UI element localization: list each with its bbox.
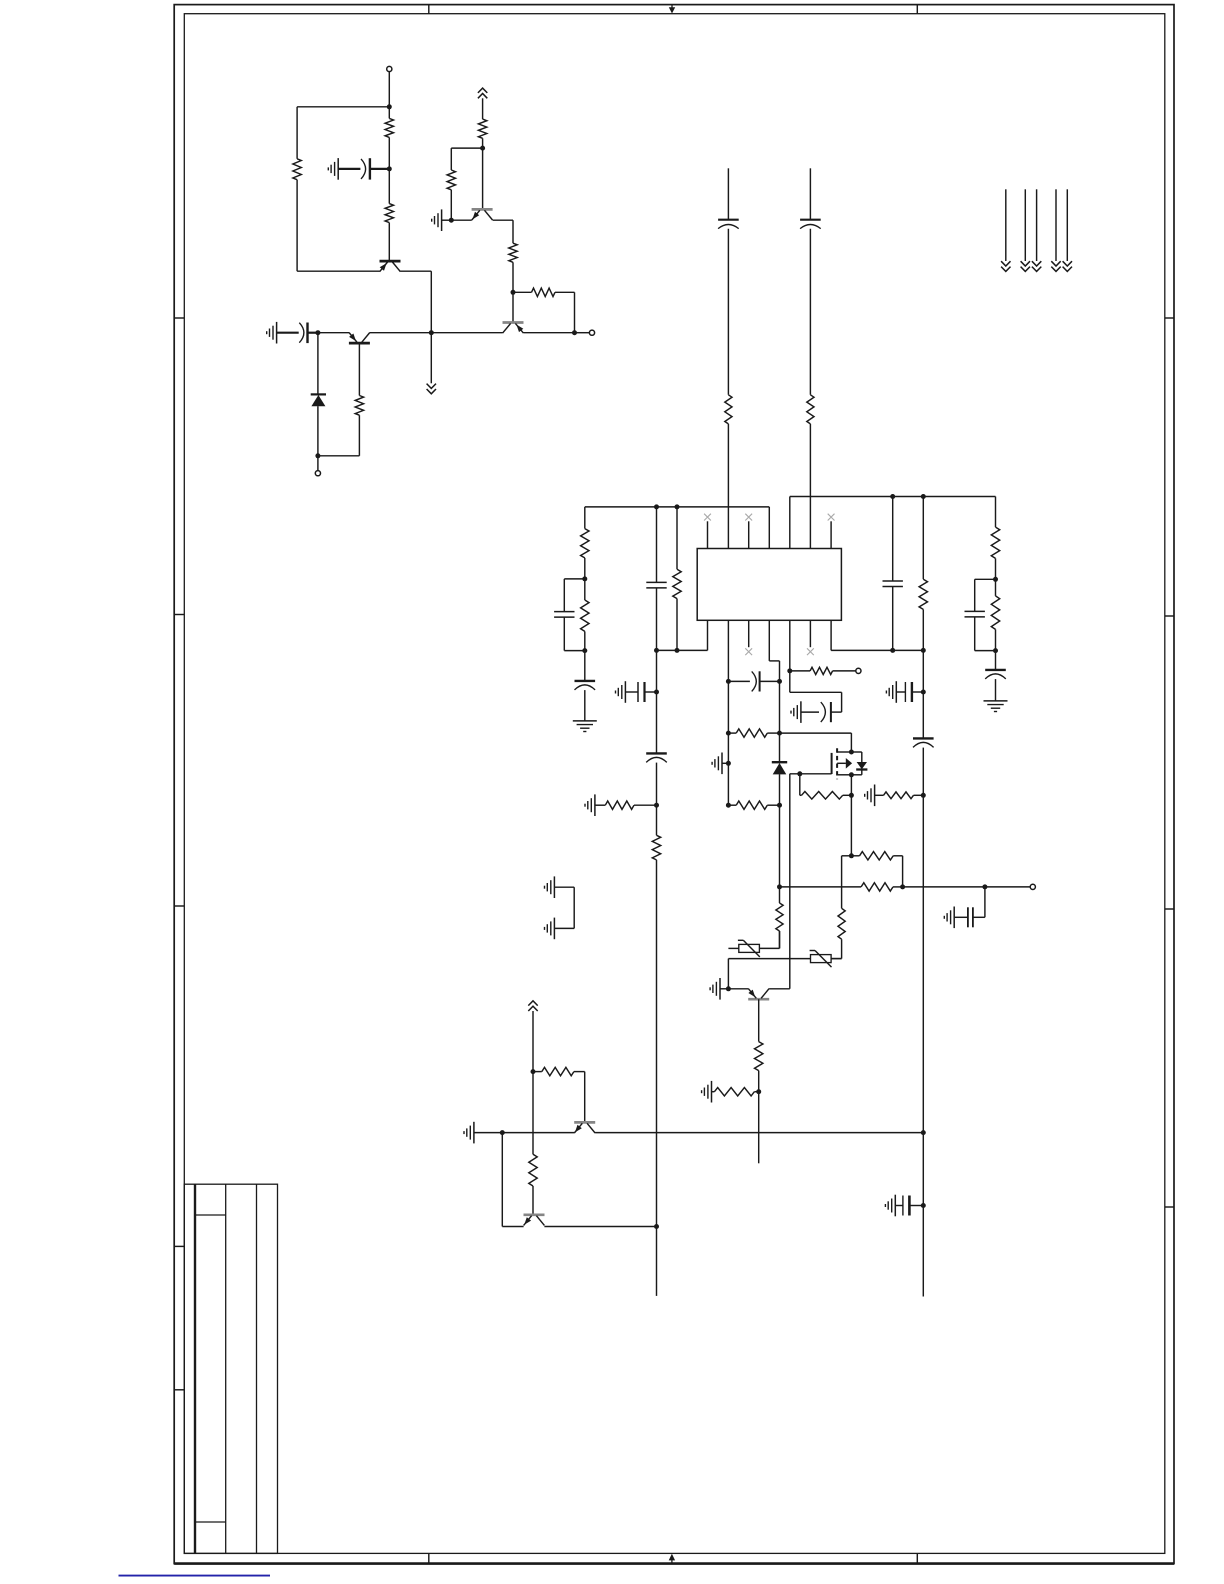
wire [532,1072,534,1155]
node [315,453,320,458]
capacitor C2 [299,323,307,344]
capacitor C4 [800,220,821,229]
power arrow down [427,384,436,394]
node [849,750,854,755]
power arrow down 1 [1001,261,1010,271]
wire [780,732,852,734]
wire [474,1132,502,1134]
resistor R18 [991,596,999,630]
node [849,772,854,777]
wire [801,711,819,713]
wire [451,147,482,149]
wire [758,999,760,1041]
node [582,576,587,581]
capacitor C5 [554,612,574,618]
ground [328,158,338,180]
power arrow up 2 [528,1001,537,1011]
wire [564,650,585,652]
wire [758,1092,760,1164]
no-connect mark [745,514,752,521]
wire [656,650,658,692]
wire [277,332,299,334]
resistor R30 [542,1067,574,1075]
wire [532,1011,534,1072]
transistor M1 [832,748,853,779]
wire [502,1226,523,1228]
capacitor C8 [965,611,985,617]
frame tick left 3 [174,905,184,907]
resistor R3 [385,204,393,223]
ground [585,794,595,816]
node [982,884,987,889]
node [921,690,926,695]
transistor Q5 [748,989,769,1000]
wire [317,406,319,456]
wire [843,794,852,796]
wire [317,333,319,394]
node [797,771,802,776]
node [726,803,731,808]
blue underline mark [119,1575,271,1577]
node [756,1089,761,1094]
wire [645,691,657,693]
wire [512,220,514,243]
wire [754,1091,758,1093]
wire [800,794,802,796]
no-connect mark [745,648,752,655]
terminal J4 [856,668,861,673]
resistor R8 [532,288,556,296]
wire [595,804,605,806]
wire [727,424,729,549]
frame tick left 4 [174,1245,184,1247]
wire [779,681,781,733]
body diode D2 [851,752,867,775]
wire [625,691,638,693]
title block outline [184,1184,277,1553]
wire [430,271,432,333]
wire [513,291,532,293]
node [500,1130,505,1135]
wire [833,670,856,672]
resistor R17 [991,527,999,558]
wire [656,507,658,583]
node [849,793,854,798]
ground [702,1081,712,1103]
wire [995,679,997,701]
wire [512,262,514,292]
resistor R4 [355,396,363,416]
ground [886,681,896,703]
wire [388,169,390,204]
frame tick right 2 [1165,615,1174,617]
capacitor C3 [718,220,739,229]
resistor R7 [509,243,517,262]
wire [388,223,390,261]
ground [545,918,555,940]
ground [545,876,555,898]
wire [914,794,924,796]
wire [563,617,565,651]
wire [634,804,657,806]
terminal J3 [589,330,594,335]
wire [841,856,843,909]
node [582,648,587,653]
wire [831,649,923,651]
wire [676,507,678,569]
wire [388,72,390,107]
wire [728,988,748,990]
wire [799,774,801,796]
wire gate [790,773,832,775]
wire [779,805,781,903]
wire [296,107,298,159]
wire [450,190,452,220]
node [654,1224,659,1229]
wire [831,958,842,960]
title block divider v1 [194,1184,196,1553]
wire [727,681,729,733]
node [921,648,926,653]
wire [903,886,985,888]
transistor Q2 [349,333,370,344]
wire [563,579,565,612]
wire [727,947,729,949]
node [511,290,516,295]
no-connect mark [828,514,835,521]
terminal J1 [387,66,392,71]
wire [850,733,852,752]
wire [727,168,729,219]
wire [656,860,658,1227]
ground [710,978,720,1000]
wire [482,138,484,148]
wire [728,947,738,949]
capacitor C14 [905,682,912,702]
capacitor C17 [903,1196,910,1216]
wire [574,292,576,332]
node [777,884,782,889]
node [654,648,659,653]
wire [841,692,843,712]
frame tick top 2 [916,5,918,14]
power arrow down 4 [1051,261,1060,271]
wire [995,497,997,528]
node [387,166,392,171]
wire [789,671,791,692]
resistor R22 [810,667,833,674]
resistor R14 [652,835,660,860]
node [921,1130,926,1135]
wire [712,1091,715,1093]
node [890,494,895,499]
IC pin 4 [768,507,770,549]
wire [769,988,790,990]
wire [431,332,502,334]
drawing frame inner border [184,14,1165,1554]
wire [974,579,976,611]
wire [912,691,923,693]
wire [656,763,658,806]
node [993,577,998,582]
IC pin 10 [789,620,791,671]
wire [759,947,779,949]
wire [851,855,859,857]
capacitor C15 [752,671,760,691]
resistor R29 [714,1088,754,1096]
node [726,986,731,991]
wire [720,988,728,990]
wire [502,1132,574,1134]
frame tick left 5 [174,1389,184,1391]
node [993,648,998,653]
wire [1036,189,1038,261]
wire [995,579,997,596]
wire [532,1186,534,1215]
resistor R6 [447,170,455,190]
wire [922,1133,924,1206]
node [726,761,731,766]
resistor R19 [776,903,783,931]
wire [482,98,484,119]
wire [895,1205,903,1207]
wire [554,927,574,929]
node [531,1069,536,1074]
wire [975,578,996,580]
ground [616,681,626,703]
wire [564,578,585,580]
IC pin 1 [707,521,709,548]
wire [1066,189,1068,261]
power arrow up [478,88,487,98]
wire [896,691,905,693]
node [726,679,731,684]
wire [317,456,319,471]
capacitor C7 [883,581,903,587]
diode D1 [311,394,326,406]
node [921,494,926,499]
resistor R10 [807,395,814,424]
wire [893,855,902,857]
no-connect mark [704,514,711,521]
wire [985,886,1030,888]
wire [584,1072,586,1123]
wire [451,219,472,221]
frame tick right 1 [1165,317,1174,319]
ground [885,1195,895,1217]
node [449,218,454,223]
resistor R20 [736,729,767,737]
IC pin 14 [707,620,709,650]
node [654,504,659,509]
capacitor C10 [985,670,1006,679]
title block divider v3 [256,1184,258,1553]
IC pin 5 [789,497,791,549]
wire [370,168,389,170]
wire [767,804,779,806]
resistor R12 [581,600,589,631]
wire [789,774,791,989]
node [572,330,577,335]
varistor RV2 [810,951,832,968]
wire [1005,189,1007,261]
wire [554,886,574,888]
frame centering arrow top [669,5,675,14]
frame tick bottom 2 [916,1553,918,1563]
resistor R24 [884,792,914,799]
wire [1024,189,1026,261]
node [675,648,680,653]
wire [370,332,432,334]
resistor R9 [725,395,732,424]
capacitor C18 [968,907,973,927]
wire [995,629,997,650]
wire [296,180,298,272]
resistor R1 [385,118,393,137]
title block divider v2 [225,1184,227,1553]
node [900,884,905,889]
node [480,146,485,151]
resistor R15 [673,569,681,598]
wire [400,270,431,272]
wire [595,1132,923,1134]
wire [544,1226,656,1228]
wire [779,931,781,948]
wire [892,497,894,582]
wire [501,1133,503,1227]
wire [656,692,658,753]
wire [727,733,729,763]
wire [584,579,586,600]
wire [555,291,575,293]
wire [297,106,389,108]
node [387,104,392,109]
node [921,793,926,798]
wire [728,804,736,806]
capacitor C16 [821,702,831,722]
terminal J5 [1030,884,1035,889]
frame tick right 3 [1165,908,1174,910]
wire [493,219,513,221]
resistor R26 [838,908,845,939]
node [921,1203,926,1208]
IC pin 8 [830,620,832,650]
wire [338,168,360,170]
node [787,668,792,673]
IC pin 11 [768,620,770,661]
wire [909,1205,923,1207]
node [429,330,434,335]
wire [973,916,985,918]
frame tick top 1 [428,5,430,14]
ground [267,322,277,344]
wire [841,939,843,958]
wire [974,617,976,651]
wire [533,1071,542,1073]
wire [902,856,904,887]
wire [922,748,924,796]
wire [728,958,810,960]
resistor R21 [736,801,767,809]
wire [779,774,781,805]
ground [791,701,801,723]
ground [712,753,722,775]
zener diode D3 [772,762,787,774]
ground [432,209,442,231]
wire [575,332,590,334]
no-connect mark [807,648,814,655]
wire [297,270,380,272]
wire [922,609,924,650]
wire [893,886,903,888]
wire [656,588,658,651]
wire [954,916,968,918]
wire [656,805,658,835]
wire [842,855,852,857]
resistor R28 [755,1042,763,1071]
resistor R2 [293,159,301,180]
resistor R13 [605,801,634,809]
wire [809,229,811,395]
IC U1 [697,549,841,621]
varistor RV1 [738,940,760,957]
power arrow down 2 [1021,261,1030,271]
wire [512,292,514,322]
wire rail A [585,506,770,508]
wire [358,415,360,456]
wire [727,620,729,681]
capacitor C1 [361,158,370,179]
node [890,648,895,653]
transistor Q6 [574,1122,595,1133]
resistor R5 [478,119,486,138]
capacitor C13 [638,682,645,702]
wire [450,148,452,170]
node [777,679,782,684]
node [315,330,320,335]
IC pin 7 [830,521,832,548]
transistor Q1 [380,261,401,272]
wire [1055,189,1057,261]
wire [482,148,484,209]
frame tick right 4 [1165,1206,1174,1208]
resistor R23 [802,792,843,800]
resistor R27 [861,883,893,891]
wire [995,651,997,670]
transistor Q3 [472,209,493,220]
title block divider h1 [195,1214,226,1216]
wire [727,763,729,805]
resistor R16 [919,579,927,609]
wire [760,680,780,682]
ground [865,785,875,807]
capacitor C6 [646,582,666,588]
IC pin 3 [748,521,750,548]
ground [573,721,597,732]
frame tick left 2 [174,614,184,616]
wire rail B [790,496,996,498]
wire [656,1227,658,1296]
ground [464,1122,474,1144]
wire [780,886,862,888]
wire [779,931,781,948]
wire [769,660,779,662]
wire [379,270,381,272]
wire [922,795,924,1132]
wire [831,958,842,960]
wire [388,107,390,119]
wire [318,455,360,457]
